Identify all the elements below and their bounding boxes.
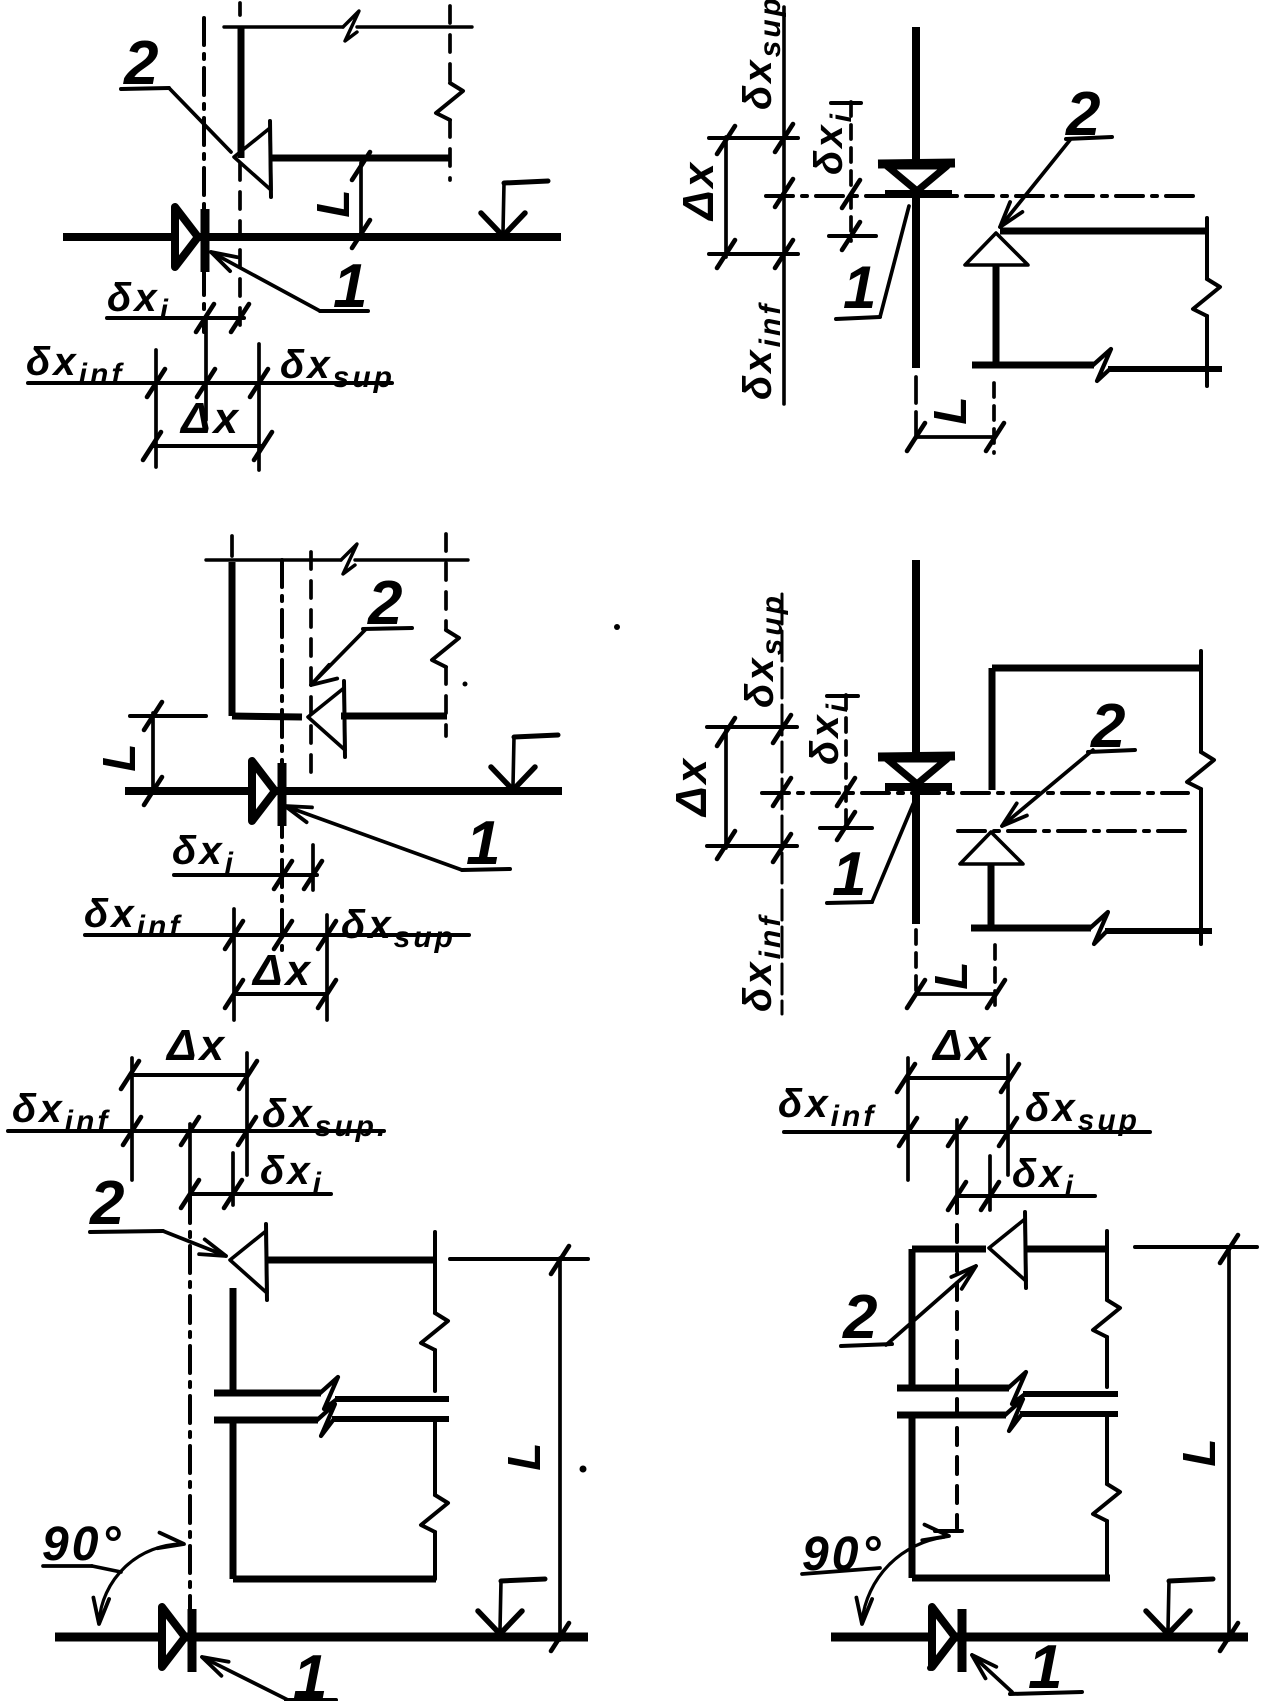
fig D dim delta-x line [724,729,728,848]
fig C wall axis dashed [309,552,313,772]
fig E label delta-x-inf [12,1087,110,1138]
fig F reference mark 1 [932,1607,962,1672]
fig C label 1 [466,809,503,878]
fig F label 90deg [802,1528,884,1581]
fig E label 2 [89,1169,127,1238]
fig C level mark [491,735,558,790]
fig E extension line right [245,1053,249,1175]
fig E reference mark 1 [162,1607,192,1672]
fig A wall edge vertical [238,28,245,158]
fig A label delta-x-sup [280,343,395,394]
fig A dim delta-x text [179,394,241,443]
fig A wall axis line (main horizontal) [63,233,561,241]
fig D alignment mark 2 (open triangle) [960,832,1023,864]
fig E leader from 2 [163,1231,226,1256]
fig D panel stub vertical [988,864,995,928]
fig F wall left edge upper [909,1249,916,1387]
svg-text:Δx: Δx [931,1021,993,1070]
fig D panel left edge [989,668,996,790]
fig A tolerance ticks [147,369,268,397]
fig D label delta-x-i [803,701,854,765]
fig C leader from 2 [311,629,366,685]
fig B dim delta-x bounds [709,138,798,254]
svg-text:2: 2 [89,1169,127,1238]
fig B label delta-x-i [807,111,858,175]
fig D dim L line [916,992,996,996]
fig D dim L ext dashes [916,930,995,1010]
fig C label 2 [367,569,405,638]
fig B label 2 underline [1066,137,1112,139]
fig B label delta-x-sup [736,0,787,110]
fig D label delta-x [667,756,716,818]
fig B panel edge horizontal [1000,228,1206,235]
fig B dim delta-x ticks [717,126,735,268]
scan speck 1 [614,624,620,630]
fig D dim L ticks [907,980,1005,1008]
fig C wall edge horizontal left [232,716,302,717]
fig F wall break line 2 [897,1399,1118,1431]
fig D reference mark 1 [878,756,955,787]
fig C main horizontal line [125,787,562,795]
fig F wall right edge lower [1093,1414,1120,1578]
fig A alignment mark 2 (open triangle) [234,121,271,197]
fig A label 1 [333,252,370,321]
fig C wall top-left stub [230,536,234,556]
fig A dimension L ticks [352,152,370,248]
fig B column axis vertical thick [912,27,920,368]
fig C alignment mark 2 (open triangle) [308,681,345,757]
fig C wall edge horizontal right [341,713,447,720]
fig E label 90deg [42,1518,124,1571]
svg-text:Δx: Δx [667,756,716,818]
fig A right dashed edge [436,6,463,180]
fig E wall top edge [268,1257,436,1264]
fig F leader from 2 [886,1266,976,1345]
fig B alignment mark 2 (open triangle) [965,233,1028,265]
fig F label 1 underline [1010,1692,1082,1694]
fig D horizontal axis dash-dot [762,791,1188,795]
fig F dim delta-x-i text [1012,1152,1076,1203]
fig C label delta-x-inf [84,892,182,943]
fig E dim delta-x line [130,1073,248,1077]
fig C dim L line [151,713,155,793]
fig D panel top edge [992,665,1202,672]
fig A vertical axis dash-dot [202,18,206,332]
fig C dim delta-x-i ticks [274,861,322,889]
fig F wall top edge right [1027,1246,1106,1253]
fig D tolerance ticks [773,715,791,862]
fig C dim L bound [130,714,206,718]
fig B dim L line [916,435,995,439]
fig E dim delta-x-i line [190,1192,331,1196]
fig C dim L text [93,740,145,771]
fig F dim delta-x ticks [897,1064,1019,1092]
fig A wall edge horizontal [270,155,450,162]
fig C reference mark 1 [252,761,282,826]
fig E tolerance line [8,1129,384,1133]
fig F extension mid [988,1156,992,1210]
fig B label 2 [1065,80,1103,149]
fig F level mark [1146,1579,1213,1634]
svg-text:L: L [1173,1435,1225,1466]
fig B dim delta-x line [724,137,728,257]
fig C tolerance line [85,933,469,937]
fig C right dashed edge [432,534,459,736]
fig C dim delta-x-i line [174,873,317,877]
fig B label delta-x-inf [736,302,787,400]
fig A label delta-x-inf [26,340,124,391]
fig D panel right dashed edge [1187,651,1214,944]
fig A extension axis below [204,318,208,420]
fig E dim L ticks [551,1246,569,1651]
fig B label 1 [843,254,879,321]
fig F dim L text [1173,1435,1225,1466]
svg-text:Δx: Δx [674,160,723,222]
fig F dim delta-x-i ticks [948,1182,999,1210]
fig A label 2 [123,29,161,98]
fig F wall break line 1 [897,1372,1118,1404]
fig D column axis vertical thick [912,560,920,924]
svg-text:L: L [498,1439,550,1470]
fig A leader from 2 [169,88,231,152]
svg-text:Δx: Δx [179,394,241,443]
fig A extension line left [154,350,158,467]
fig E label 1 underline [286,1698,336,1701]
fig A wall axis dashed [238,163,242,330]
fig F dim L bound top [1135,1245,1257,1249]
fig A reference mark 1 [175,207,205,272]
svg-text:1: 1 [832,840,869,909]
fig A dim delta-x-i line [107,316,244,320]
fig A dim delta-x-i ticks [196,304,249,332]
fig A label 2 underline [121,88,169,89]
fig B dim delta-x-i bounds [829,103,876,236]
fig A tolerance line [28,381,392,385]
fig C dim delta-x line [234,992,327,996]
fig F label delta-x-sup [1025,1086,1140,1137]
fig A wall top line with break [224,11,472,41]
fig F dim L line [1227,1247,1231,1640]
fig C wall top line with break [206,544,468,574]
fig D label delta-x-inf [736,914,787,1012]
fig E tolerance ticks [123,1117,256,1145]
fig F wall top edge left [912,1246,986,1253]
fig B leader to mark 1 [880,206,909,317]
fig B dim L text [924,393,976,424]
fig E level mark [478,1579,545,1634]
fig E label 90deg underline [43,1566,121,1572]
fig E dim L text [498,1439,550,1470]
fig E dim delta-x text [165,1021,227,1070]
fig B dim L ticks [907,423,1004,451]
fig C tolerance ticks [225,921,336,949]
fig E wall left edge upper [230,1288,237,1391]
fig F label 90deg underline [802,1568,880,1574]
fig F right-angle bound [935,1529,962,1533]
fig C extension line left [232,909,236,1020]
fig D dim L text [925,958,977,989]
fig A dim delta-x ticks [143,432,272,460]
fig C main axis dash-dot [280,560,284,950]
fig F extension line left [906,1058,910,1180]
svg-text:L: L [93,740,145,771]
fig E alignment mark 2 (open triangle) [230,1224,267,1300]
fig F label 2 [842,1283,880,1352]
fig F tolerance line [784,1130,1150,1134]
fig F main axis dashed [955,1196,959,1528]
fig E dim delta-x-i text [260,1149,324,1200]
fig D label 1 underline [827,902,872,903]
fig A dim delta-x line [152,444,263,448]
fig F tolerance ticks [899,1118,1017,1146]
svg-text:1: 1 [293,1643,330,1701]
fig F extension line right [1006,1055,1010,1175]
fig F dim delta-x-i line [957,1194,1095,1198]
fig F leader to mark 1 [972,1655,1012,1692]
fig E wall bottom edge [233,1576,436,1583]
fig E wall left edge lower [230,1420,237,1579]
fig C dim delta-x ticks [225,980,336,1008]
fig D label 2 underline [1088,750,1135,752]
fig F label 2 underline [841,1344,892,1346]
fig E main axis dash-dot [188,1196,192,1630]
fig A extension line right [257,344,261,470]
fig C dim L ticks [144,702,162,805]
fig F wall left edge lower [909,1417,916,1578]
fig C label 2 underline [363,628,412,629]
fig E wall break line 2 [214,1404,449,1436]
fig D panel bottom edge with break [971,912,1212,944]
fig F dim delta-x text [931,1021,993,1070]
fig E label delta-x-sup [262,1092,388,1143]
fig B horizontal axis dash-dot [766,194,1196,198]
svg-text:90°: 90° [42,1518,124,1571]
fig F label delta-x-inf [778,1082,876,1133]
fig F main line [831,1633,1248,1642]
fig E dim L bound top [450,1257,588,1261]
fig E label 1 [293,1643,330,1701]
fig D tolerance line vertical [781,594,784,1014]
svg-text:L: L [307,186,359,217]
svg-text:L: L [925,958,977,989]
fig E dim delta-x-i ticks [181,1180,242,1208]
fig B dim delta-x-i dashes [849,102,853,241]
fig B tolerance line vertical [782,7,786,404]
fig E dim delta-x ticks [121,1061,257,1089]
fig D panel axis dash-dot [958,829,1192,833]
svg-text:1: 1 [333,252,370,321]
fig B panel bottom edge with break [972,349,1222,381]
fig C dim delta-x-i text [172,829,236,880]
fig A leader to mark 1 [211,252,368,311]
fig D leader to mark 1 [872,795,917,902]
fig E main axis upper ext [188,1124,192,1196]
fig B dim delta-x-i ticks [842,180,860,250]
scan speck 4 [463,682,468,687]
fig F alignment mark 2 (open triangle) [989,1212,1026,1288]
fig A dimension L text [307,186,359,217]
fig D leader from 2 [1002,750,1093,826]
scan speck 3 [927,1665,933,1671]
fig F label 1 [1028,1633,1065,1701]
fig E wall right edge upper [421,1232,448,1391]
fig B panel right dashed edge [1193,218,1220,386]
fig E extension line left [130,1058,134,1180]
fig E wall break line 1 [214,1377,449,1409]
fig E leader to mark 1 [202,1657,288,1700]
fig F main axis upper ext [955,1120,959,1196]
fig D label delta-x-sup [738,593,789,708]
fig E main line [55,1633,588,1642]
fig C extension line right [325,915,329,1020]
fig B panel stub vertical [993,266,1000,364]
fig E wall right edge lower [421,1419,448,1579]
fig C dim delta-x text [251,946,313,995]
fig D dim delta-x ticks [717,718,735,859]
fig F angle arc [856,1525,949,1624]
svg-text:Δx: Δx [251,946,313,995]
fig C leader to mark 1 [285,806,462,870]
fig B tolerance ticks [775,124,793,268]
fig A wall top-left axis stub [238,3,242,22]
fig B label delta-x [674,160,723,222]
fig A level mark [481,181,548,236]
svg-text:Δx: Δx [165,1021,227,1070]
fig F wall bottom edge [912,1575,1110,1582]
fig D label 1 [832,840,869,909]
fig D dim delta-x-i ticks [837,778,855,840]
fig C label 1 underline [462,869,510,870]
svg-text:L: L [924,393,976,424]
svg-text:1: 1 [843,254,879,321]
fig D label 2 [1090,692,1128,761]
fig A dimension L line [359,163,363,236]
fig E extension mid [231,1153,235,1205]
fig D dim delta-x bounds [707,727,797,846]
fig C label delta-x-sup [341,903,456,954]
fig D dim delta-x-i bounds [820,696,872,828]
fig C wall axis ext [311,845,315,890]
fig E dim L line [558,1258,562,1640]
fig E angle arc [93,1533,184,1624]
fig F wall right edge upper [1093,1231,1120,1387]
fig D dim delta-x-i dashes [844,695,848,830]
fig B reference mark 1 [878,163,955,194]
scan speck 2 [580,1466,587,1473]
fig B dim L ext dashes [916,377,994,453]
fig B label 1 underline [836,317,880,319]
fig F dim L ticks [1220,1235,1238,1651]
fig C wall edge vertical [229,562,236,716]
fig F dim delta-x line [906,1076,1010,1080]
fig B leader from 2 [1000,140,1070,227]
svg-text:2: 2 [842,1283,880,1352]
fig A dim delta-x-i text [107,276,171,327]
fig E label 2 underline [90,1231,163,1232]
